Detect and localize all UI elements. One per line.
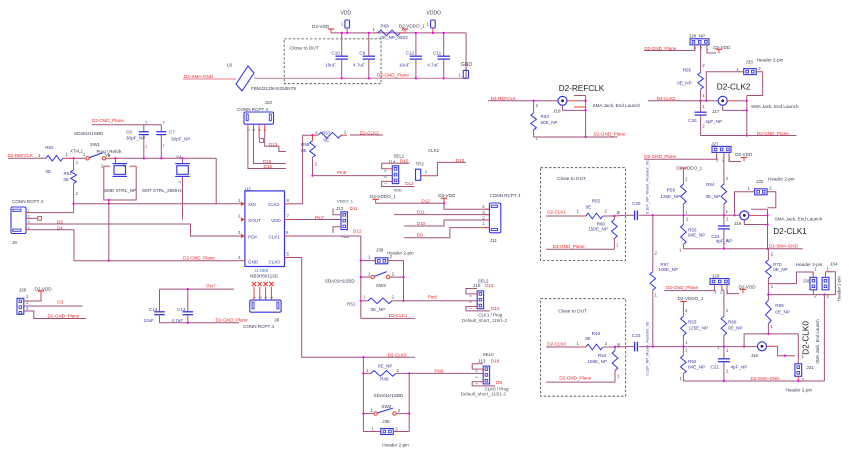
svg-text:XIN: XIN [248,202,256,207]
svg-text:R63: R63 [541,114,550,119]
svg-text:2: 2 [163,121,165,125]
svg-text:100E_NP: 100E_NP [658,267,678,272]
svg-text:CONN RCPT 4: CONN RCPT 4 [237,107,269,112]
svg-text:D2-GND_Plane: D2-GND_Plane [594,132,626,137]
wire J26 pin3 to D2-GND_Plane [24,311,87,319]
svg-text:R66: R66 [728,320,737,325]
wire J26 pin1 to flag [24,295,41,302]
svg-text:Pin7: Pin7 [206,283,216,288]
svg-text:Close to DUT: Close to DUT [557,176,586,182]
svg-text:J26: J26 [19,287,27,292]
svg-text:J9: J9 [12,240,17,245]
svg-text:I1-OE9: I1-OE9 [255,268,269,273]
resistor R56 84E_NP [682,215,684,224]
wire CLK1 row to block [291,236,361,318]
svg-text:Header 2-pin: Header 2-pin [786,387,813,392]
svg-text:4: 4 [270,297,274,299]
svg-text:R61: R61 [64,171,73,176]
dashed box Close to DUT (top) [284,39,381,84]
svg-text:0E: 0E [586,204,592,209]
svg-text:D2-VDDO_1: D2-VDDO_1 [399,24,425,29]
svg-text:4.7uF: 4.7uF [353,63,365,68]
svg-text:CLK2: CLK2 [428,148,440,153]
svg-text:D3: D3 [57,219,63,224]
svg-text:R52: R52 [688,359,697,364]
svg-text:C23: C23 [632,333,641,338]
wire J15 shield path [767,345,778,347]
svg-text:SMA Jack, End Launch: SMA Jack, End Launch [751,104,799,109]
svg-text:D2-GND_Plane: D2-GND_Plane [666,285,698,290]
wire J9 pin1 up to R61 column [29,212,74,214]
svg-text:D15: D15 [400,158,409,163]
connector J8 CONN RCPT 4 with no-connects [252,282,256,286]
svg-text:SW2: SW2 [381,404,391,409]
net label D2-CLK2 stub [350,134,383,136]
svg-text:D2-GND_Plane: D2-GND_Plane [92,118,124,123]
wire D9 row [404,228,490,238]
svg-text:R68: R68 [381,24,390,29]
svg-text:0.1uF_NP_Mount_Resistor_0E: 0.1uF_NP_Mount_Resistor_0E [644,160,649,214]
svg-text:10uF: 10uF [399,63,410,68]
svg-text:2: 2 [145,121,147,125]
svg-text:C7: C7 [169,130,175,135]
svg-text:TP2: TP2 [416,162,425,167]
wire box2 to C25 [614,214,625,217]
svg-text:D2-SMA-GND: D2-SMA-GND [769,244,799,249]
wire XIN row [74,203,217,205]
svg-text:1: 1 [163,143,165,147]
svg-text:Pin8: Pin8 [337,170,347,175]
svg-text:10uF: 10uF [325,63,336,68]
svg-text:J34: J34 [830,262,838,267]
resistor R62 0E [46,156,63,162]
svg-text:C9: C9 [359,51,365,56]
U2 pin 6 CLK1 [285,235,292,237]
svg-text:D2-VDD: D2-VDD [312,24,330,29]
wire J28 pin3 to D2-GND_Plane label [644,45,695,51]
SMA jack J17 [718,96,727,105]
wire box3 ground row [546,381,615,383]
wire J27 pin1 to D2-VDD flag [729,152,741,161]
svg-text:Header 2-pin: Header 2-pin [837,276,842,301]
svg-text:4: 4 [263,129,267,131]
svg-text:D16: D16 [264,164,273,169]
svg-text:R59: R59 [667,188,676,193]
wire J17 ground row [701,135,797,137]
svg-text:R57: R57 [322,131,331,136]
U2 pin 3 PD# [241,234,245,238]
wire XTAL row [116,157,217,159]
svg-text:D2-CLK0: D2-CLK0 [388,353,407,358]
resistor R68 0E_NP_0603 [375,32,378,34]
svg-text:3: 3 [384,170,388,172]
svg-text:SMA Jack, End Launch: SMA Jack, End Launch [775,217,823,222]
wire J30 pin2 row [812,290,814,295]
svg-text:D3: D3 [57,300,63,305]
svg-text:0E_NP: 0E_NP [775,310,790,315]
svg-text:GND: GND [248,260,259,265]
wire J19 pin1 hook to D10 [473,306,477,308]
svg-text:2: 2 [258,297,262,299]
svg-text:FBMJ2125HS250NT9: FBMJ2125HS250NT9 [251,86,296,91]
svg-text:1: 1 [246,129,250,131]
wire J29 pin3 to D2-GND_Plane label [664,285,714,291]
wire J17 shield bracket [727,100,737,102]
svg-text:R54: R54 [598,353,607,358]
svg-text:D2-REFCLK: D2-REFCLK [559,84,605,93]
svg-text:Close to DUT: Close to DUT [290,45,319,51]
header J31 [795,364,802,377]
resistor R59 125E_NP [682,172,684,184]
svg-text:D2-REFCLK: D2-REFCLK [8,153,34,158]
wire J32 left down to CLK1 row [735,192,755,216]
svg-text:D10: D10 [491,306,500,311]
U2 pin 1 XIN [241,202,245,206]
resistor R65 0E_NP [700,45,702,73]
svg-text:D11: D11 [417,209,426,214]
SMA jack J16 [740,211,749,220]
wire J36 left [361,260,376,262]
svg-text:R55: R55 [592,199,601,204]
svg-text:J11: J11 [490,238,498,243]
wire J9 pin4 D4 down to GND row [29,230,74,261]
wire J32 right to J16 shield [767,192,776,208]
svg-text:D2-CLK1: D2-CLK1 [773,227,807,236]
svg-text:Default_short_J19/1-2: Default_short_J19/1-2 [462,318,508,323]
svg-text:J28_NP: J28_NP [689,34,705,39]
svg-text:J31: J31 [806,365,814,370]
svg-text:4pF_NP: 4pF_NP [731,365,748,370]
svg-text:R58: R58 [301,142,310,147]
svg-text:0E: 0E [301,148,307,153]
svg-text:D2-CLK0: D2-CLK0 [802,321,811,355]
svg-text:0E_NP: 0E_NP [371,307,386,312]
wire J34 pin1 short loop [825,272,827,278]
svg-text:0E_NP: 0E_NP [706,194,721,199]
svg-text:R53: R53 [688,320,697,325]
svg-text:SMD XTRL_NP: SMD XTRL_NP [104,188,136,193]
svg-text:J8: J8 [274,317,279,322]
SMA jack J15 [758,342,767,351]
wire D10 row [404,220,490,226]
svg-text:R69: R69 [775,303,784,308]
wire J31 shield top path [744,334,798,347]
svg-text:30pF_NP: 30pF_NP [171,137,190,142]
svg-text:150E_NP: 150E_NP [588,226,608,231]
wire J13 pin1 hook to D9 [479,381,483,383]
wire J31 pin2 to ground row [797,376,799,381]
svg-text:D10: D10 [417,221,426,226]
svg-text:1: 1 [145,145,147,149]
svg-text:J29: J29 [712,273,720,278]
svg-text:1: 1 [384,183,388,185]
wire J16 shield bracket [751,208,768,210]
svg-text:D4: D4 [57,225,63,230]
svg-text:D15: D15 [485,283,494,288]
net label D2-CLK1 stub [361,317,415,319]
svg-text:D12: D12 [405,181,414,186]
wire D2-SMA-GND net [183,78,236,80]
svg-text:SW3: SW3 [376,283,386,288]
wire U2 GND row D2-GND_Plane [74,260,241,262]
svg-text:2: 2 [384,176,388,178]
ferrite bead L6 [236,66,254,91]
svg-text:0E_NP: 0E_NP [378,364,393,369]
svg-text:C14: C14 [149,307,158,312]
svg-text:Pin7: Pin7 [315,215,325,220]
svg-text:D13: D13 [269,142,278,147]
wire box2 ground row [546,248,614,250]
svg-text:NB3H60113G: NB3H60113G [250,274,279,279]
no-connect box on J10 pin3 [258,132,260,138]
capacitor C9 4.7uF [368,33,370,56]
svg-text:D2-CLK2: D2-CLK2 [360,130,379,135]
wire J19 pin3 hook [473,293,477,295]
svg-text:R48: R48 [592,331,601,336]
wire D2-CLK1 box row [546,215,580,217]
svg-text:1: 1 [253,297,257,299]
resistor R58 0E [312,135,314,140]
svg-text:SEL0: SEL0 [483,352,494,357]
capacitor C8 30pF_NP [143,125,145,132]
svg-text:D2-VDD: D2-VDD [739,284,757,289]
svg-text:C8: C8 [126,130,132,135]
svg-text:CLK2: CLK2 [268,202,280,207]
svg-text:D2-CLK2: D2-CLK2 [717,83,751,92]
svg-text:0E: 0E [46,169,52,174]
svg-text:D9: D9 [496,380,502,385]
svg-text:J32: J32 [756,179,764,184]
wire J33 right to J17 shield [747,72,763,96]
wire box3 to C23 [615,346,626,348]
wire D11 row [394,214,489,216]
svg-text:4.7uF: 4.7uF [171,318,183,323]
capacitor C21 4pF_NP [723,347,725,359]
resistor R66 0E_NP [721,285,723,291]
wire J10 pin1 to D16 [248,132,286,169]
svg-text:3: 3 [469,295,473,297]
svg-text:L6: L6 [227,63,233,68]
svg-text:0E_NP: 0E_NP [677,81,692,86]
svg-text:D2-SMA-GND: D2-SMA-GND [184,74,214,79]
svg-text:D11: D11 [350,206,359,211]
svg-text:1: 1 [469,308,473,310]
svg-text:D2-SMA-GND: D2-SMA-GND [751,376,781,381]
svg-text:SMA Jack, End Launch: SMA Jack, End Launch [815,319,820,364]
wire J12 pin3 hook [333,209,341,215]
svg-text:VDD: VDD [341,11,352,17]
svg-text:J15: J15 [751,353,759,358]
svg-text:Y4: Y4 [176,155,182,160]
svg-text:2: 2 [469,301,473,303]
wire D2-CLK0 main row [639,346,758,348]
capacitor C11 4.7uF [443,33,445,56]
wire Pin7 row U2 VDD to J12 [291,219,341,221]
wire TP2 to D13 [421,175,427,177]
wire Pin8 to J14 [313,175,393,177]
capacitor C7 30pF_NP [160,125,162,132]
wire J28 pin1 to D2-VDD flag [707,45,716,53]
svg-text:D2-VDD: D2-VDD [735,152,753,157]
wire D2-CLK1 main row [639,214,740,216]
wire CLK0 down corner [291,258,415,358]
svg-text:D15: D15 [263,159,272,164]
wire J10 pin2 to D15 [254,132,286,164]
wire D2-GND_Plane rail above C8 C7 [92,124,162,126]
svg-text:XTAL1: XTAL1 [70,149,84,154]
svg-text:CONN RCPT 4: CONN RCPT 4 [243,324,275,329]
wire Y3 case loop [104,165,110,167]
svg-text:CLK0: CLK0 [269,260,281,265]
svg-text:R49: R49 [380,376,389,381]
wire J18 ground row [534,136,618,138]
svg-text:84E_NP: 84E_NP [688,233,705,238]
wire GND rail to decoupling caps [254,77,466,79]
svg-text:C10: C10 [331,51,340,56]
svg-text:C21: C21 [711,365,720,370]
svg-text:D2-GND_Plane: D2-GND_Plane [48,314,80,319]
svg-text:J12: J12 [336,206,344,211]
svg-text:J35: J35 [382,419,390,424]
wire J16 ground row D2-SMA-GND [683,248,802,250]
SMA jack J18 [558,96,567,105]
svg-text:GND: GND [461,62,473,68]
svg-text:D16: D16 [491,359,500,364]
svg-text:3: 3 [475,370,479,372]
svg-text:125E_NP: 125E_NP [660,194,680,199]
svg-text:J27: J27 [711,141,719,146]
svg-text:125E_NP: 125E_NP [689,326,709,331]
svg-text:D2-VDDO_1: D2-VDDO_1 [678,296,704,301]
wire VDD rail [331,32,466,34]
wire J15 ground row D2-SMA-GND [683,380,824,382]
header J34 [822,277,829,290]
svg-text:D2-VDD: D2-VDD [438,193,456,198]
wire into R62 [8,157,46,159]
resistor R63 50E_NP [533,101,535,113]
svg-text:SW1: SW1 [90,142,100,147]
svg-text:CONN RCPT 4: CONN RCPT 4 [490,193,522,198]
svg-text:D2-GND_Plane: D2-GND_Plane [183,256,215,261]
wire XTAL row corner to XIN [216,158,241,204]
resistor R70 0E_NP [767,249,769,260]
svg-text:0E_NP: 0E_NP [728,326,743,331]
svg-text:30pF_NP: 30pF_NP [126,136,145,141]
svg-text:D2-GND_Plane: D2-GND_Plane [216,318,248,323]
svg-text:D2-GND_Plane: D2-GND_Plane [377,73,409,78]
svg-text:C13: C13 [177,307,186,312]
svg-text:J10: J10 [265,100,273,105]
wire J27 pin3 to D2-GND_Plane label [644,152,716,159]
svg-text:D12: D12 [353,229,362,234]
resistor R64 0E_NP [723,152,725,184]
svg-text:D2-GND_Plane: D2-GND_Plane [644,46,676,51]
svg-text:PD#: PD# [248,234,257,239]
svg-text:150E_NP: 150E_NP [587,359,607,364]
svg-text:SDA01H1SBD: SDA01H1SBD [325,279,356,284]
svg-text:R65: R65 [683,68,692,73]
wire ground rail under C14 C13 [160,322,239,324]
wire SW2 block left vertical [362,357,364,431]
svg-text:J13: J13 [478,359,486,364]
svg-text:D12: D12 [421,199,430,204]
svg-text:D2-VDDO_1: D2-VDDO_1 [370,194,396,199]
dashed box Close to DUT (middle) [541,168,626,261]
resistor R53 125E_NP [682,306,684,317]
svg-text:D2-CLK0: D2-CLK0 [547,342,566,347]
svg-text:D2-CLK1: D2-CLK1 [389,313,408,318]
wire Y4 to XOUT [182,177,184,220]
svg-text:C12: C12 [406,51,415,56]
svg-text:2: 2 [252,129,256,131]
svg-text:D2-CLK1: D2-CLK1 [547,209,566,214]
wire J9 pin3 D3 to PD# [29,224,241,236]
svg-text:VDDO_1: VDDO_1 [337,198,354,203]
svg-text:VDD: VDD [394,187,403,192]
capacitor C12 10uF [415,33,417,56]
svg-text:2: 2 [178,181,182,183]
svg-text:SDA01H1SBD: SDA01H1SBD [374,393,405,398]
svg-text:SMT XTRL_25MHz: SMT XTRL_25MHz [142,188,182,193]
svg-text:R62: R62 [45,145,54,150]
wire Pin7 rail [160,288,235,290]
svg-text:C25: C25 [632,201,641,206]
svg-text:Default_short_J13/1-2: Default_short_J13/1-2 [461,391,507,396]
wire D12 row [376,203,490,209]
dashed box Close to DUT (bottom) [540,299,625,397]
resistor R54 150E_NP [614,347,616,351]
svg-text:J16: J16 [734,221,742,226]
svg-text:D2-GND_Plane: D2-GND_Plane [553,244,585,249]
svg-text:4pF_NP: 4pF_NP [716,239,733,244]
wire J13 pin3 hook [479,368,483,370]
svg-text:D9: D9 [417,233,423,238]
U2 pin 2 XOUT [241,217,245,221]
svg-text:VDDO: VDDO [427,11,442,17]
wire J34 column down [823,295,825,381]
wire D2-CLK0 box row [546,346,580,348]
svg-text:3: 3 [264,297,268,299]
svg-text:VDD: VDD [271,218,281,223]
svg-text:XOUT: XOUT [248,218,261,223]
svg-text:2: 2 [475,376,479,378]
U2 pin 7 VDD [285,219,292,221]
wire CLK2 up corner [291,135,313,204]
wire J18 shield bracket [567,100,577,102]
svg-text:D2-GND_Plane: D2-GND_Plane [559,376,591,381]
resistor R52 84E_NP [682,347,684,356]
svg-text:0.1uF_NP_Mount_Resistor_0E: 0.1uF_NP_Mount_Resistor_0E [644,321,649,375]
svg-text:0E: 0E [585,336,591,341]
svg-text:C11: C11 [433,51,442,56]
svg-text:CONN RCPT 4: CONN RCPT 4 [12,199,43,204]
svg-text:R51: R51 [347,302,356,307]
svg-text:D2-GND_Plane: D2-GND_Plane [644,154,676,159]
wire J36 right down [388,261,404,301]
wire J33 left down to CLK2 row [706,72,743,101]
capacitor C10 10uF [341,33,343,56]
svg-text:CLK1: CLK1 [269,234,281,239]
capacitor C14 10uF [159,289,161,312]
svg-text:D13: D13 [456,158,465,163]
wire J12 pin1 hook [333,227,341,233]
svg-text:1: 1 [475,383,479,385]
wire Pin6 row to J13 [409,372,483,374]
capacitor C24 4pF_NP [723,215,725,226]
svg-text:Pin6: Pin6 [434,369,444,374]
svg-text:J18: J18 [553,109,561,114]
svg-text:D2-GND_Plane: D2-GND_Plane [757,131,789,136]
